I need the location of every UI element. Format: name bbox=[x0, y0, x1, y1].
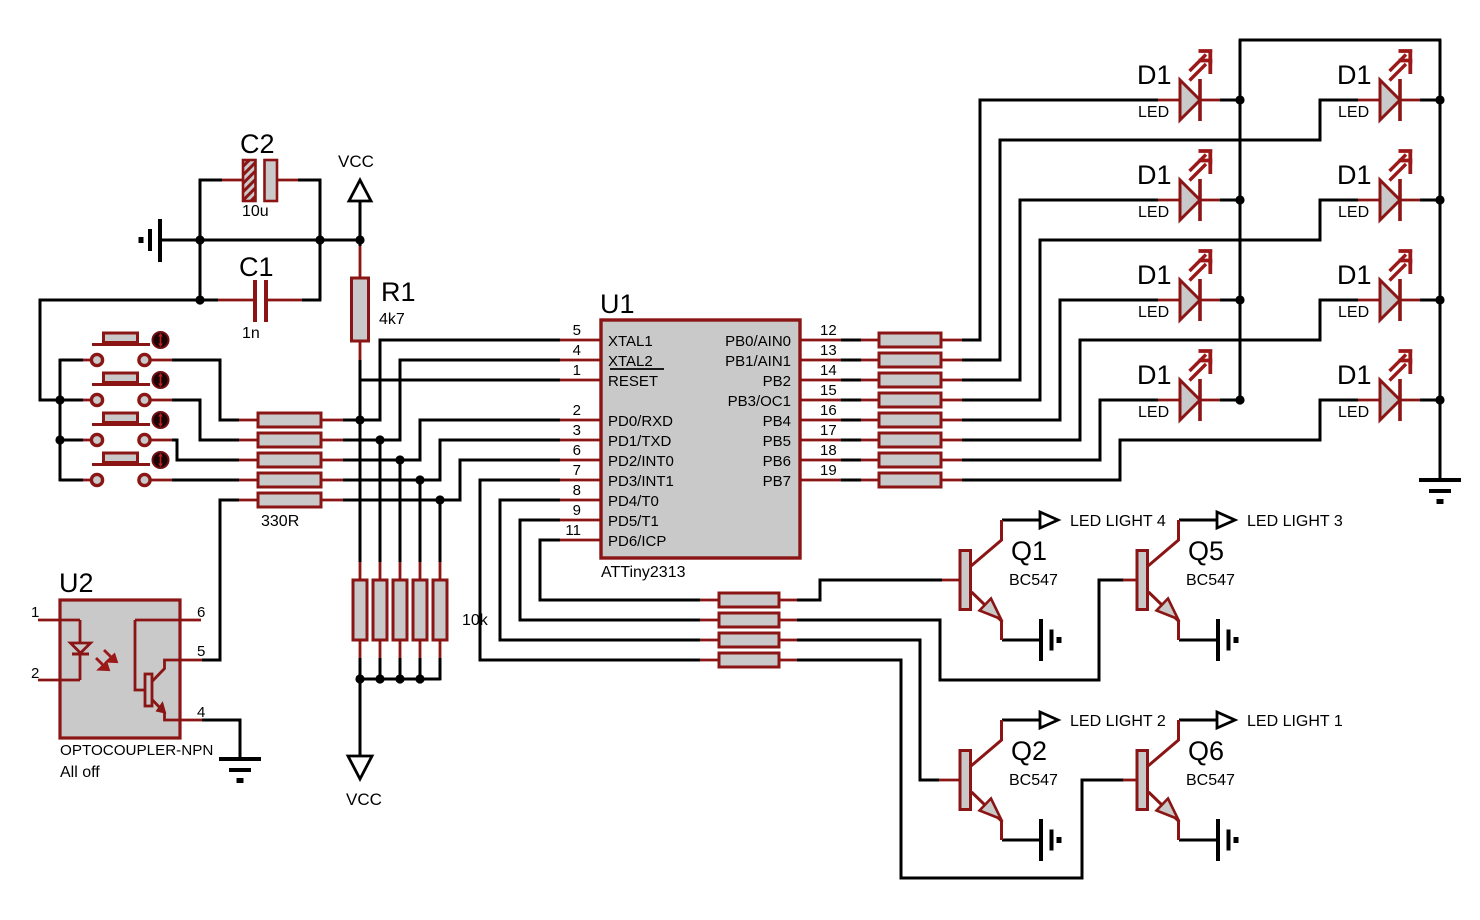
svg-text:PB7: PB7 bbox=[763, 473, 791, 490]
svg-text:PD5/T1: PD5/T1 bbox=[608, 513, 659, 530]
IC U1 ATTiny2313 bbox=[560, 289, 841, 581]
svg-text:PD6/ICP: PD6/ICP bbox=[608, 533, 666, 550]
svg-text:PD4/T0: PD4/T0 bbox=[608, 493, 659, 510]
svg-text:16: 16 bbox=[820, 402, 837, 419]
svg-text:Q1: Q1 bbox=[1011, 536, 1047, 566]
transistor Q2 bbox=[939, 720, 1058, 840]
svg-text:PD3/INT1: PD3/INT1 bbox=[608, 473, 674, 490]
svg-text:15: 15 bbox=[820, 382, 837, 399]
LED D1 (row4 left) bbox=[1137, 349, 1220, 421]
resistor network 330R bbox=[239, 413, 343, 530]
pin 2 lead bbox=[38, 679, 80, 682]
LED D1 (row4 right) bbox=[1337, 349, 1420, 421]
pin numbers right bbox=[820, 322, 837, 479]
wire LED cathodes to buses bbox=[1220, 100, 1240, 400]
wire 10k column 2 bbox=[379, 440, 382, 562]
junction C2 ground node bbox=[195, 235, 204, 244]
wire pack row14 to LED2 left bbox=[962, 200, 1158, 380]
junction VCC / R1 bbox=[355, 235, 364, 244]
wire 10k bottom bus to VCC bbox=[360, 658, 440, 756]
push button SW1 bbox=[83, 332, 172, 366]
wire pack row19 to LED4 right bbox=[962, 400, 1358, 480]
svg-text:4: 4 bbox=[573, 342, 581, 359]
svg-text:Q5: Q5 bbox=[1188, 536, 1224, 566]
pin 6 lead + base path bbox=[135, 619, 201, 622]
wire 10k column 5 bbox=[439, 500, 442, 562]
svg-text:PD2/INT0: PD2/INT0 bbox=[608, 453, 674, 470]
svg-text:17: 17 bbox=[820, 422, 837, 439]
svg-text:PB3/OC1: PB3/OC1 bbox=[728, 393, 791, 410]
resistor network 10k (5x vertical) bbox=[353, 562, 489, 658]
internal LED bbox=[79, 620, 82, 643]
wire PD0 to 330R row3 bbox=[343, 420, 560, 460]
optocoupler U2 bbox=[31, 568, 213, 781]
wire LED right bus to ground bbox=[1439, 40, 1442, 479]
LED D1 (row2 right) bbox=[1337, 149, 1420, 221]
svg-text:6: 6 bbox=[573, 442, 581, 459]
wire PD3 to RN4 r4 bbox=[480, 480, 700, 660]
junction button bus row2 bbox=[55, 395, 64, 404]
wire RN4 r1 to Q1 base bbox=[797, 580, 942, 600]
wire PD2 to 330R row5 bbox=[343, 460, 560, 500]
pin stubs bbox=[560, 340, 841, 540]
push button SW3 bbox=[83, 412, 172, 446]
wire PD6 to RN4 r1 bbox=[540, 540, 700, 600]
resistor pack (8x) at PB outputs bbox=[861, 333, 962, 487]
resistor pack (4x) at PD outputs bbox=[700, 593, 797, 667]
wire RN4 r3 to Q2 base bbox=[797, 640, 939, 780]
output arrow LED LIGHT 3 bbox=[1217, 512, 1235, 528]
svg-text:1: 1 bbox=[573, 362, 581, 379]
capacitor C2 bbox=[222, 129, 298, 220]
wire button4 to 330R r4 bbox=[172, 479, 239, 482]
wire Q2 emitter to ground bbox=[1002, 839, 1040, 842]
svg-text:10u: 10u bbox=[242, 203, 269, 220]
svg-text:U2: U2 bbox=[59, 568, 94, 598]
svg-text:ATTiny2313: ATTiny2313 bbox=[601, 564, 686, 581]
wire RN4 r2 to Q5 base bbox=[797, 580, 1124, 680]
junction 330R r4 / 10k c4 bbox=[415, 475, 424, 484]
svg-text:PD1/TXD: PD1/TXD bbox=[608, 433, 672, 450]
wire PD4 to RN4 r3 bbox=[500, 500, 700, 640]
wire PD1 to 330R row4 bbox=[343, 440, 560, 480]
output arrow LED LIGHT 2 bbox=[1040, 712, 1058, 728]
wire C2 top left bbox=[199, 179, 222, 182]
junction C1 left bbox=[195, 295, 204, 304]
transistor Q6 bbox=[1123, 720, 1235, 840]
svg-text:VCC: VCC bbox=[338, 152, 374, 171]
wire Q6 emitter to ground bbox=[1179, 839, 1217, 842]
pin names left bbox=[608, 333, 674, 550]
svg-text:3: 3 bbox=[573, 422, 581, 439]
LED D1 (row1 right) bbox=[1337, 49, 1420, 121]
svg-text:C1: C1 bbox=[239, 252, 274, 282]
svg-text:LED LIGHT 4: LED LIGHT 4 bbox=[1070, 513, 1166, 530]
svg-text:U1: U1 bbox=[600, 289, 635, 319]
svg-text:1n: 1n bbox=[242, 325, 260, 342]
output arrow LED LIGHT 4 bbox=[1040, 512, 1058, 528]
wire button bus bbox=[60, 359, 83, 482]
svg-text:7: 7 bbox=[573, 462, 581, 479]
junction 330R r5 / 10k c5 bbox=[435, 495, 444, 504]
ground (LED right bus) bbox=[1419, 480, 1461, 502]
svg-text:RESET: RESET bbox=[608, 373, 658, 390]
LED D1 (row3 right) bbox=[1337, 249, 1420, 321]
svg-text:18: 18 bbox=[820, 442, 837, 459]
svg-text:BC547: BC547 bbox=[1009, 572, 1058, 589]
ground (top left, pointing left) bbox=[141, 219, 160, 262]
transistor Q1 bbox=[942, 520, 1058, 640]
svg-text:BC547: BC547 bbox=[1009, 772, 1058, 789]
svg-text:R1: R1 bbox=[381, 277, 416, 307]
svg-text:19: 19 bbox=[820, 462, 837, 479]
ground (U2 pin4) bbox=[219, 759, 261, 781]
wire button2 to 330R r2 bbox=[172, 400, 239, 440]
wire button3 to 330R r3 bbox=[172, 440, 239, 460]
transistor Q5 bbox=[1123, 520, 1235, 640]
svg-text:330R: 330R bbox=[261, 513, 299, 530]
svg-text:6: 6 bbox=[197, 604, 205, 621]
push button SW2 bbox=[83, 372, 172, 406]
svg-text:LED LIGHT 2: LED LIGHT 2 bbox=[1070, 713, 1166, 730]
svg-text:VCC: VCC bbox=[346, 790, 382, 809]
wire Q1 emitter to ground bbox=[1002, 639, 1040, 642]
pin names right bbox=[725, 333, 791, 490]
svg-text:PB1/AIN1: PB1/AIN1 bbox=[725, 353, 791, 370]
pin 1 lead bbox=[38, 619, 80, 622]
svg-text:4k7: 4k7 bbox=[379, 311, 405, 328]
ground (Q1 emitter) bbox=[1041, 619, 1059, 661]
svg-text:PD0/RXD: PD0/RXD bbox=[608, 413, 673, 430]
wire VCC arrow to R1 bbox=[359, 201, 362, 246]
wire pack row15 to LED2 right bbox=[962, 200, 1358, 400]
push button SW4 bbox=[83, 452, 172, 486]
power flag VCC (bottom) bbox=[346, 756, 382, 809]
wire Q5 collector out bbox=[1179, 519, 1217, 522]
LED D1 (row2 left) bbox=[1137, 149, 1220, 221]
svg-text:XTAL2: XTAL2 bbox=[608, 353, 653, 370]
junction 330R r1 / 10k c1 bbox=[355, 415, 364, 424]
output arrow LED LIGHT 1 bbox=[1217, 712, 1235, 728]
LED D1 (row3 left) bbox=[1137, 249, 1220, 321]
wire button1 to 330R r1 bbox=[172, 360, 239, 420]
wire XTAL2 to 330R row2 bbox=[343, 360, 560, 440]
wire 10k column 4 bbox=[419, 480, 422, 562]
svg-text:BC547: BC547 bbox=[1186, 772, 1235, 789]
svg-text:PB2: PB2 bbox=[763, 373, 791, 390]
wire chip right stubs to resistor pack bbox=[841, 340, 861, 480]
wire pack row18 to LED4 left bbox=[962, 400, 1158, 460]
svg-text:LED LIGHT 3: LED LIGHT 3 bbox=[1247, 513, 1343, 530]
junction C2 right / VCC rail bbox=[315, 235, 324, 244]
wire U2 pin4 to ground bbox=[202, 720, 240, 758]
svg-text:14: 14 bbox=[820, 362, 837, 379]
wire R1 bottom / RESET / 10k column bbox=[360, 360, 560, 562]
junction button bus row3 bbox=[55, 435, 64, 444]
junction 10k bottom bus bbox=[355, 674, 364, 683]
svg-text:XTAL1: XTAL1 bbox=[608, 333, 653, 350]
pin numbers left bbox=[565, 322, 581, 539]
wire pack row12 to LED1 left bbox=[962, 100, 1158, 340]
svg-text:12: 12 bbox=[820, 322, 837, 339]
wire right vertical C2/C1 bbox=[319, 179, 322, 300]
wire Q2 collector out bbox=[1002, 719, 1040, 722]
wire pack row16 to LED3 left bbox=[962, 300, 1158, 420]
junction 330R r3 / 10k c3 bbox=[395, 455, 404, 464]
svg-text:All off: All off bbox=[60, 764, 100, 781]
svg-text:5: 5 bbox=[197, 643, 205, 660]
LED D1 (row1 left) bbox=[1137, 49, 1220, 121]
junction LED center bus bbox=[1235, 95, 1244, 104]
resistor R1 4k7 bbox=[352, 246, 416, 360]
wire Q1 collector out bbox=[1002, 519, 1040, 522]
svg-text:9: 9 bbox=[573, 502, 581, 519]
junction LED right bus bbox=[1435, 95, 1444, 104]
wire VCC rail y240 bbox=[200, 239, 360, 242]
ground (Q2 emitter) bbox=[1041, 819, 1059, 861]
svg-text:2: 2 bbox=[573, 402, 581, 419]
wire C1 right bbox=[302, 240, 321, 300]
junction 330R r2 / 10k c2 bbox=[375, 435, 384, 444]
internal transistor bbox=[145, 674, 152, 706]
wire RN4 r4 to Q6 base bbox=[797, 660, 1124, 878]
svg-text:LED LIGHT 1: LED LIGHT 1 bbox=[1247, 713, 1343, 730]
wire ground to C2 node bbox=[160, 239, 200, 242]
svg-text:5: 5 bbox=[573, 322, 581, 339]
capacitor C1 bbox=[218, 252, 302, 342]
wire pack row13 to LED1 right bbox=[962, 100, 1358, 360]
power flag VCC (top) bbox=[338, 152, 374, 201]
svg-text:PB6: PB6 bbox=[763, 453, 791, 470]
svg-text:1: 1 bbox=[31, 604, 39, 621]
svg-text:Q2: Q2 bbox=[1011, 736, 1047, 766]
ground (Q5 emitter) bbox=[1218, 619, 1236, 661]
wire 10k column 3 bbox=[399, 460, 402, 562]
svg-text:BC547: BC547 bbox=[1186, 572, 1235, 589]
svg-text:4: 4 bbox=[197, 704, 205, 721]
wire LED top link bbox=[1239, 39, 1442, 42]
svg-text:PB4: PB4 bbox=[763, 413, 791, 430]
wire C2 top right bbox=[298, 179, 321, 182]
ground (Q6 emitter) bbox=[1218, 819, 1236, 861]
svg-text:C2: C2 bbox=[240, 129, 275, 159]
wire LED center bus bbox=[1239, 40, 1242, 400]
svg-text:PB0/AIN0: PB0/AIN0 bbox=[725, 333, 791, 350]
RESET overline bbox=[610, 368, 664, 370]
svg-text:8: 8 bbox=[573, 482, 581, 499]
svg-text:Q6: Q6 bbox=[1188, 736, 1224, 766]
wire left vertical C2/C1 bbox=[199, 179, 202, 300]
svg-text:10k: 10k bbox=[462, 612, 489, 629]
svg-text:2: 2 bbox=[31, 665, 39, 682]
wire XTAL1 to 330R row1 bbox=[343, 340, 560, 420]
svg-text:OPTOCOUPLER-NPN: OPTOCOUPLER-NPN bbox=[60, 742, 213, 759]
svg-text:13: 13 bbox=[820, 342, 837, 359]
svg-text:PB5: PB5 bbox=[763, 433, 791, 450]
wire 330R r5 to U2 pin5 bbox=[202, 500, 239, 660]
wire PD5 to RN4 r2 bbox=[520, 520, 700, 620]
wire Q6 collector out bbox=[1179, 719, 1217, 722]
wire pack row17 to LED3 right bbox=[962, 300, 1358, 440]
svg-text:11: 11 bbox=[565, 522, 581, 539]
wire Q5 emitter to ground bbox=[1179, 639, 1217, 642]
wire C1 left to button bus bbox=[40, 300, 218, 400]
